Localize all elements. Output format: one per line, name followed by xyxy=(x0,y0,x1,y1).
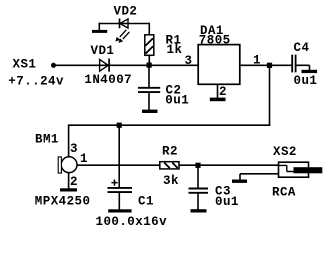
wire junction down through signal line to C1 xyxy=(118,125,120,187)
svg-text:C4: C4 xyxy=(294,41,310,55)
resistor R1 hatch xyxy=(146,38,153,53)
svg-text:+7..24v: +7..24v xyxy=(8,75,64,89)
diode VD1 triangle xyxy=(100,59,109,71)
svg-text:VD1: VD1 xyxy=(91,44,115,58)
resistor R1 body xyxy=(145,35,154,56)
wire horizontal feed line to BM1 xyxy=(69,124,271,126)
ground C4 xyxy=(302,70,318,73)
svg-text:0u1: 0u1 xyxy=(165,94,189,108)
wire R1 bottom to main line xyxy=(148,55,150,65)
wire output junction down xyxy=(269,65,271,125)
capacitor C1 plates xyxy=(108,188,133,192)
svg-text:1N4007: 1N4007 xyxy=(84,73,132,87)
svg-text:1: 1 xyxy=(253,54,261,68)
svg-text:VD2: VD2 xyxy=(114,5,138,19)
svg-text:2: 2 xyxy=(219,85,227,99)
ground C1 xyxy=(108,209,131,212)
junction node on feed line above C1 xyxy=(117,123,122,128)
svg-text:MPX4250: MPX4250 xyxy=(35,194,91,208)
wire BM1 pin2 to ground xyxy=(68,173,70,189)
LED VD2 emission arrow 2 xyxy=(119,32,130,43)
svg-text:1k: 1k xyxy=(167,43,183,57)
wire C2 bottom to ground xyxy=(148,93,150,110)
svg-text:2: 2 xyxy=(70,175,78,189)
svg-text:XS1: XS1 xyxy=(13,57,37,71)
junction node at R2/C3 xyxy=(195,163,200,168)
wire BM1 pin1 to R2 xyxy=(77,164,160,166)
sensor BM1 port bar xyxy=(58,157,61,173)
IC DA1 7805 box xyxy=(198,45,240,85)
capacitor C3 plates xyxy=(189,189,209,193)
LED VD2 cathode bar xyxy=(119,19,121,29)
wire C3 bottom xyxy=(197,194,199,210)
diode VD1 cathode bar xyxy=(108,59,110,72)
wire down to BM1 pin3 xyxy=(68,124,70,157)
svg-text:C1: C1 xyxy=(138,194,154,208)
connector XS2 body xyxy=(279,162,309,177)
svg-text:1: 1 xyxy=(80,152,88,166)
ground C2 xyxy=(142,110,158,113)
wire C4 left xyxy=(270,64,292,66)
resistor R2 body xyxy=(160,162,179,169)
wire DA1 pin2 down xyxy=(217,85,219,99)
svg-text:BM1: BM1 xyxy=(35,132,59,146)
wire C4 right to ground xyxy=(296,65,309,70)
LED VD2 triangle xyxy=(120,19,128,28)
wire LED branch down to R1 top xyxy=(148,23,150,35)
sensor BM1 circle xyxy=(61,157,77,173)
capacitor C1 plus sign xyxy=(111,180,117,186)
svg-text:0u1: 0u1 xyxy=(294,74,318,88)
capacitor C4 plates xyxy=(292,55,295,73)
connector XS2 center pin plug xyxy=(294,167,323,173)
node XS1 terminal dot xyxy=(51,63,56,68)
svg-text:XS2: XS2 xyxy=(273,145,297,159)
wire C2 top xyxy=(148,65,150,87)
svg-text:3: 3 xyxy=(185,54,193,68)
junction node at DA1 output xyxy=(267,63,272,68)
connector XS2 internal step wire xyxy=(279,165,295,171)
wire R2 to XS2 xyxy=(179,164,279,166)
svg-text:RCA: RCA xyxy=(272,186,296,200)
svg-text:3: 3 xyxy=(70,142,78,156)
wire DA1 pin1 to junction xyxy=(240,64,270,66)
capacitor C2 plates xyxy=(138,88,160,92)
svg-text:R2: R2 xyxy=(162,144,178,158)
wire C3 top xyxy=(197,165,199,188)
LED VD2 emission arrow 1 xyxy=(115,30,126,42)
svg-text:0u1: 0u1 xyxy=(215,195,239,209)
svg-text:3k: 3k xyxy=(163,174,179,188)
junction node at R1/C2 on main line xyxy=(147,63,152,68)
ground DA1 pin2 xyxy=(210,98,226,102)
ground bar for VD2 xyxy=(92,30,107,33)
ground C3 xyxy=(191,209,207,212)
wire XS2 shield to ground xyxy=(240,174,279,180)
wire C1 bottom xyxy=(118,193,120,210)
ground XS2 shield xyxy=(232,180,247,183)
svg-text:7805: 7805 xyxy=(199,33,231,47)
wire LED branch horizontal xyxy=(99,23,149,25)
svg-text:100.0x16v: 100.0x16v xyxy=(96,215,168,229)
wire ground riser left of VD2 xyxy=(98,23,100,31)
resistor R2 hatch xyxy=(164,163,178,169)
ground BM1 xyxy=(60,188,77,191)
wire main input line XS1 to DA1 pin 3 xyxy=(54,64,199,66)
